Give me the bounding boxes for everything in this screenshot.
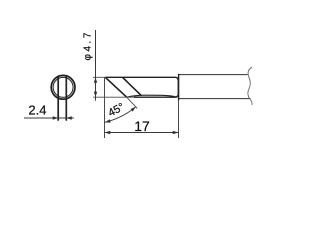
svg-text:45°: 45° — [106, 101, 126, 119]
svg-text:17: 17 — [134, 118, 150, 134]
svg-text:2.4: 2.4 — [28, 103, 46, 118]
svg-text:φ4.7: φ4.7 — [83, 30, 94, 60]
